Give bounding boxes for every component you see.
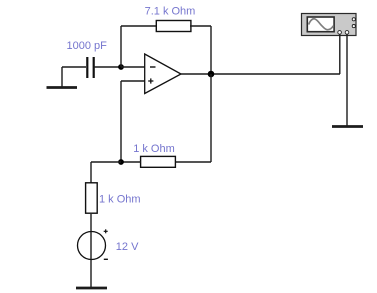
wire: node C left xyxy=(91,161,121,163)
wire: scope terminal B down to ground xyxy=(346,34,348,126)
wire: resistor R3 to source V1 xyxy=(90,214,92,232)
wire: op-amp output to scope branch xyxy=(181,73,340,75)
svg-text:1 k Ohm: 1 k Ohm xyxy=(133,143,175,155)
svg-text:1 k Ohm: 1 k Ohm xyxy=(99,193,141,205)
wire: node A to op-amp inverting input xyxy=(121,66,145,68)
oscilloscope XSC1 xyxy=(302,14,357,36)
wire: top feedback right segment xyxy=(190,25,211,27)
source V1 12 V xyxy=(78,229,108,288)
capacitor C1 xyxy=(87,57,93,78)
wire: lower feedback right segment xyxy=(175,161,211,163)
op-amp U1 xyxy=(145,54,181,94)
wire: feedback right vertical down to output node xyxy=(210,26,212,74)
wire: down to resistor R3 xyxy=(90,162,92,183)
wire: top feedback left segment xyxy=(121,25,157,27)
ground GND2 (below source) xyxy=(76,287,107,290)
wire: ground to capacitor left plate xyxy=(62,66,86,68)
ground GND3 (scope) xyxy=(332,125,363,128)
wire: resistor R2 to node C xyxy=(121,161,141,163)
node A (inverting-input junction) xyxy=(118,64,124,70)
wire: scope terminal A down to output wire xyxy=(339,34,341,74)
node B (output junction) xyxy=(208,71,215,78)
ground GND1 (left of capacitor) xyxy=(47,67,78,88)
resistor R3 xyxy=(86,183,98,213)
wire: non-inverting branch vertical down to node C xyxy=(120,81,122,162)
wire: node A up to feedback top xyxy=(120,26,122,67)
resistor R1 xyxy=(156,21,191,32)
svg-text:7.1 k Ohm: 7.1 k Ohm xyxy=(145,5,196,17)
wire: output node down to lower feedback xyxy=(210,74,212,162)
wire: op-amp non-inverting input to left xyxy=(121,80,145,82)
wire: capacitor to node A xyxy=(94,66,121,68)
node C (non-inverting junction) xyxy=(118,159,124,165)
svg-text:12 V: 12 V xyxy=(116,241,139,253)
svg-text:1000 pF: 1000 pF xyxy=(67,40,108,52)
resistor R2 xyxy=(141,156,176,167)
